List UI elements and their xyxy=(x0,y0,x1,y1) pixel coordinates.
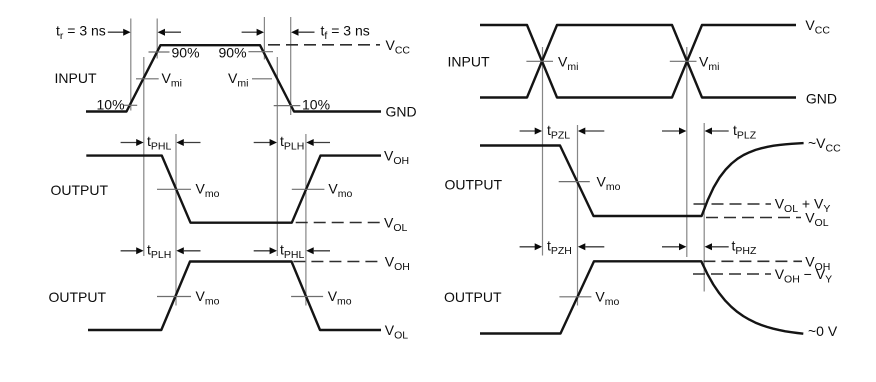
svg-text:90%: 90% xyxy=(172,45,200,61)
label Vmo right output1 xyxy=(597,174,621,194)
wire: tr arrow right xyxy=(108,29,131,36)
wire: VCC dashed reference line left xyxy=(268,44,380,46)
svg-text:10%: 10% xyxy=(97,97,125,113)
node: 90% tick falling xyxy=(248,51,273,53)
label VOL + VY xyxy=(775,196,831,216)
wire: tPZL arrow left xyxy=(578,128,604,135)
node: Vmi tick falling xyxy=(252,78,272,80)
wire: right output2 waveform with decay-to-0V curve xyxy=(480,261,803,333)
wire: tPHL arrow left output2 xyxy=(306,247,330,254)
wire: tPZL arrow right xyxy=(520,128,543,135)
label tPLZ xyxy=(733,122,757,142)
wire: left output2 waveform (non-inverting) xyxy=(88,262,381,331)
wire: tPLH arrow left output1 xyxy=(306,139,330,146)
wire: right input waveform upper trace xyxy=(480,25,796,98)
node: Vmo tick right output1 xyxy=(559,181,590,183)
label Vmo output2 rising xyxy=(196,288,220,308)
label VOH output1 xyxy=(384,148,409,168)
label Vmo output2 falling xyxy=(328,288,352,308)
label tPLH output1 xyxy=(280,133,304,153)
wire: tPHL arrow right output1 xyxy=(121,139,144,146)
node: Vmo tick output2 falling xyxy=(291,296,323,298)
node: vertical reference line at input crossing 2 xyxy=(686,47,688,257)
node: vertical reference line at 90% rising crossing xyxy=(156,19,158,59)
node: Vmo tick output2 rising xyxy=(157,296,191,298)
label Vmi rising xyxy=(162,70,182,90)
node: vertical reference line at 10% falling crossing xyxy=(290,17,292,115)
label VOL output2 xyxy=(385,322,409,342)
label VCC left xyxy=(386,37,411,57)
svg-text:90%: 90% xyxy=(219,45,247,61)
label VOH output2 xyxy=(385,254,410,274)
node: 10% tick rising xyxy=(124,104,138,106)
wire: right input waveform lower trace xyxy=(480,25,796,98)
label 90% rising xyxy=(172,45,200,61)
svg-text:OUTPUT: OUTPUT xyxy=(445,177,503,193)
wire: left input waveform xyxy=(86,45,381,111)
label VOL output1 xyxy=(384,215,408,235)
wire: tf arrow right xyxy=(242,29,264,36)
label Vmi falling xyxy=(228,70,248,90)
wire: tPLZ arrow right xyxy=(662,128,686,135)
label OUTPUT right 1 xyxy=(445,177,503,193)
wire: tPLH arrow right output2 xyxy=(121,247,144,254)
label Vmi crossing 2 xyxy=(699,54,719,74)
svg-text:OUTPUT: OUTPUT xyxy=(444,289,502,305)
label Vmo output1 falling xyxy=(196,181,220,201)
label 90% falling xyxy=(219,45,247,61)
node: vertical reference line at Vmi rising crossing xyxy=(143,57,145,256)
label OUTPUT right 2 xyxy=(444,289,502,305)
label tf = 3 ns xyxy=(321,23,370,43)
node: vertical reference line at 10% rising crossing xyxy=(130,19,132,111)
wire: tPHZ arrow right xyxy=(662,243,686,250)
node: vertical reference line at Vmi falling crossing xyxy=(276,57,278,256)
svg-text:OUTPUT: OUTPUT xyxy=(51,182,109,198)
label tPLH output2 xyxy=(147,241,171,260)
node: 10% tick falling xyxy=(274,105,301,107)
wire: tPLH arrow left output2 xyxy=(176,247,200,254)
label 10% rising xyxy=(97,97,125,113)
node: vertical reference line at Vmo crossings right xyxy=(577,125,579,306)
node: Vmi tick crossing 1 xyxy=(526,60,553,62)
wire: VOL dashed right xyxy=(706,217,801,219)
node: Vmo tick right output2 xyxy=(559,296,591,298)
wire: tPZH arrow right xyxy=(520,243,543,250)
node: vertical reference line at input crossing 1 xyxy=(542,47,544,256)
label tPZL xyxy=(547,122,570,142)
label ~0 V xyxy=(808,323,838,339)
wire: tPLZ arrow left xyxy=(705,128,729,135)
wire: tPHZ arrow left xyxy=(705,243,729,250)
node: vertical reference line at Vmo left crossings xyxy=(175,134,177,306)
svg-text:GND: GND xyxy=(386,104,417,120)
wire: VOL dashed output1 xyxy=(296,222,380,224)
label Vmi crossing 1 xyxy=(558,54,578,74)
node: vertical reference line at Z transitions xyxy=(703,123,705,292)
label GND left xyxy=(386,104,417,120)
label OUTPUT left 2 xyxy=(49,289,107,305)
label tr = 3 ns xyxy=(56,23,106,43)
label GND right xyxy=(806,91,837,107)
label tPHL output1 xyxy=(147,133,171,153)
wire: VOH dashed right xyxy=(703,260,802,262)
wire: VOL+VY dashed xyxy=(694,203,772,205)
label Vmo output1 rising xyxy=(328,181,352,201)
label ~VCC xyxy=(808,135,841,155)
label VCC right xyxy=(805,17,830,37)
wire: left output1 waveform (inverting) xyxy=(86,156,381,223)
label VOH right xyxy=(805,254,830,274)
node: vertical reference line at Vmo right crossings xyxy=(305,134,307,306)
wire: tPZH arrow left xyxy=(578,243,604,250)
svg-text:GND: GND xyxy=(806,91,837,107)
node: Vmo tick output1 falling xyxy=(157,188,191,190)
wire: right output1 waveform with rise-to-VCC curve xyxy=(480,143,804,216)
node: Vmi tick rising xyxy=(136,78,159,80)
svg-text:INPUT: INPUT xyxy=(55,70,97,86)
wire: VOH dashed output2 xyxy=(293,261,380,263)
label tPHZ xyxy=(732,238,757,258)
svg-text:INPUT: INPUT xyxy=(448,54,490,70)
label 10% falling xyxy=(302,97,330,113)
wire: tf arrow left xyxy=(291,29,314,36)
node: Vmo tick output1 rising xyxy=(292,188,325,190)
svg-text:~0 V: ~0 V xyxy=(808,323,838,339)
node: 90% tick rising xyxy=(149,51,170,53)
label tPZH xyxy=(547,238,572,258)
wire: tPHL arrow left output1 xyxy=(176,139,200,146)
svg-text:10%: 10% xyxy=(302,97,330,113)
label tPHL output2 xyxy=(280,241,304,260)
node: vertical reference line at 90% falling crossing xyxy=(263,17,265,60)
label INPUT left xyxy=(55,70,97,86)
label INPUT right xyxy=(448,54,490,70)
wire: tPHL arrow right output2 xyxy=(254,247,277,254)
wire: tr arrow left xyxy=(158,29,181,36)
wire: VOH-VY dashed xyxy=(693,273,771,275)
label OUTPUT left 1 xyxy=(51,182,109,198)
label VOH - VY xyxy=(775,266,832,286)
wire: tPLH arrow right output1 xyxy=(254,139,277,146)
node: Vmi tick crossing 2 xyxy=(670,60,697,62)
svg-text:OUTPUT: OUTPUT xyxy=(49,289,107,305)
label Vmo right output2 xyxy=(595,289,619,309)
label VOL right xyxy=(805,210,829,230)
